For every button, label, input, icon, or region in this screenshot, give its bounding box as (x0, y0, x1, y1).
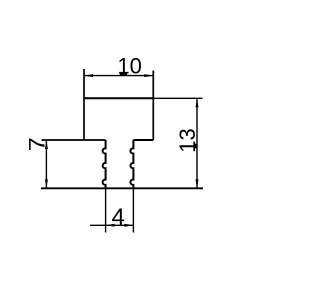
dim13 dimension line (196, 98, 198, 188)
dim10 left arrowhead (84, 74, 93, 77)
dim13 top arrowhead (196, 98, 199, 107)
dim13 top extension line (153, 97, 202, 99)
dim10 text "1" foot serif (120, 73, 127, 75)
dim4 right extension line (132, 188, 134, 232)
dim4 dimension line (90, 224, 133, 226)
dim10 dimension line (84, 75, 153, 77)
svg-text:13: 13 (175, 128, 200, 152)
svg-text:4: 4 (112, 204, 125, 231)
profile cap bottom-left edge + dim7 top extension line (42, 139, 106, 141)
svg-text:7: 7 (25, 137, 50, 151)
profile bottom edge + dim7/dim13 bottom extension line (41, 187, 203, 189)
dim4 left extension line (105, 188, 107, 232)
dim13 text "1" foot serif (195, 144, 197, 149)
profile stem right side with barbs (130, 140, 133, 188)
dim7 top arrowhead (45, 140, 48, 149)
profile stem left side with barbs (103, 140, 106, 188)
dim7 dimension line (45, 140, 47, 188)
profile cap bottom-right edge (133, 139, 153, 141)
dim4 left arrowhead (106, 224, 115, 227)
dim13 bottom arrowhead (196, 179, 199, 188)
dim10 right arrowhead (144, 74, 153, 77)
profile cap top edge (84, 97, 153, 99)
profile cap left side + dim10 left extension line (83, 69, 85, 140)
profile cap right side + dim10 right extension line (152, 71, 154, 141)
dim4 right arrowhead (124, 224, 133, 227)
dim7 bottom arrowhead (45, 179, 48, 188)
